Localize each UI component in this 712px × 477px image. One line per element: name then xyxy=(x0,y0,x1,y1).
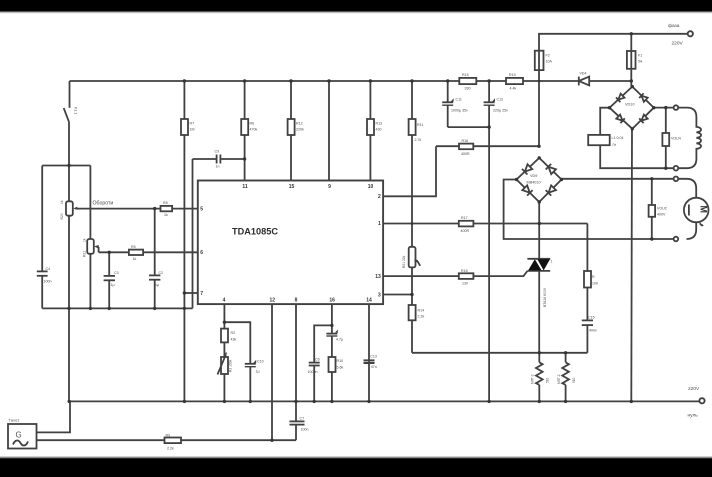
svg-text:R14: R14 xyxy=(418,309,425,313)
potentiometer R21 xyxy=(409,247,421,268)
svg-text:1k: 1k xyxy=(133,257,137,261)
svg-text:C4: C4 xyxy=(46,267,51,271)
wire pin16 column xyxy=(331,304,333,401)
svg-text:43k: 43k xyxy=(231,338,237,342)
svg-text:1µ: 1µ xyxy=(111,283,115,287)
wire R13 column pin10 xyxy=(369,81,371,181)
svg-text:L1 0.04: L1 0.04 xyxy=(612,136,624,140)
svg-text:R7: R7 xyxy=(190,122,195,126)
svg-text:1k: 1k xyxy=(83,238,87,242)
wire pin4 column xyxy=(223,304,225,401)
pin numbers top xyxy=(242,184,373,190)
pin numbers left xyxy=(200,206,203,296)
svg-text:R15: R15 xyxy=(462,73,469,77)
wire L1 to field return xyxy=(600,145,673,168)
svg-text:MB4010: MB4010 xyxy=(527,181,541,185)
wire C12 column xyxy=(488,81,490,401)
svg-text:фаза: фаза xyxy=(668,23,680,29)
wire pin7 stub xyxy=(184,292,197,294)
svg-text:R2: R2 xyxy=(231,331,236,335)
svg-text:BTA16 600V: BTA16 600V xyxy=(543,287,547,307)
capacitor C10 xyxy=(245,360,256,402)
svg-text:Обороти: Обороти xyxy=(93,201,114,207)
svg-text:C12: C12 xyxy=(497,98,504,102)
resistor R7 xyxy=(181,119,188,135)
inductor field winding xyxy=(678,108,701,169)
svg-text:Тахо1: Тахо1 xyxy=(9,418,21,423)
svg-text:R12: R12 xyxy=(296,122,303,126)
svg-text:R6: R6 xyxy=(250,122,255,126)
svg-text:470k: 470k xyxy=(250,128,258,132)
wire pin4 branch to C10 xyxy=(224,322,250,363)
svg-text:МЛТ-2: МЛТ-2 xyxy=(557,374,561,384)
svg-text:M: M xyxy=(699,206,709,214)
node dots VD10 corners xyxy=(631,85,634,88)
svg-text:6: 6 xyxy=(200,250,203,256)
svg-text:2.7k: 2.7k xyxy=(415,138,422,142)
wire VD9 left corner to armature return xyxy=(504,180,674,240)
wire pin9 column xyxy=(328,81,330,181)
wire pin2 row xyxy=(383,146,436,196)
wire R16 row xyxy=(436,145,539,147)
svg-text:нуль: нуль xyxy=(688,414,699,419)
IC U1 TDA1085C body xyxy=(198,181,383,305)
fuse F1 xyxy=(627,51,636,69)
fuse F2 xyxy=(535,51,544,70)
svg-text:C3: C3 xyxy=(114,271,119,275)
wire VD9 right corner armature row xyxy=(562,178,674,180)
terminal field bottom xyxy=(674,166,679,171)
svg-text:R13: R13 xyxy=(376,122,383,126)
svg-text:220V: 220V xyxy=(672,41,684,47)
terminal phase 220V xyxy=(688,31,693,36)
node dots shunt row xyxy=(538,351,541,354)
svg-text:10A: 10A xyxy=(546,60,553,64)
svg-text:430: 430 xyxy=(376,128,382,132)
svg-text:C13: C13 xyxy=(370,355,377,359)
svg-text:C6: C6 xyxy=(315,358,320,362)
resistor R11 xyxy=(409,119,416,135)
capacitor C15 xyxy=(582,320,593,325)
svg-text:100: 100 xyxy=(592,282,598,286)
wire fuse F1 branch xyxy=(630,34,632,87)
svg-text:47n: 47n xyxy=(371,365,377,369)
svg-text:R10: R10 xyxy=(337,359,344,363)
svg-text:400R: 400R xyxy=(461,152,470,156)
svg-text:1: 1 xyxy=(551,260,553,264)
wire switch column to ground xyxy=(68,121,70,401)
wire phase top lead xyxy=(539,34,688,146)
node dot phase F1 xyxy=(630,32,633,35)
wire triac anode column xyxy=(538,271,540,353)
capacitor C7 xyxy=(290,421,305,424)
svg-text:VOU2: VOU2 xyxy=(657,207,667,211)
svg-text:VD9: VD9 xyxy=(530,174,537,178)
capacitor C5 4u7 xyxy=(326,330,337,337)
svg-text:15: 15 xyxy=(289,184,295,190)
svg-text:R11: R11 xyxy=(417,123,423,127)
svg-text:12: 12 xyxy=(270,298,276,304)
resistor R17 xyxy=(459,221,474,227)
terminal armature minus xyxy=(674,237,679,242)
wire R12 column pin15 xyxy=(290,81,292,181)
svg-text:C15: C15 xyxy=(588,316,595,320)
wire C4 column xyxy=(41,166,43,271)
svg-text:1µ: 1µ xyxy=(155,283,159,287)
resistor bleeder 2 xyxy=(562,353,569,402)
wire snubber column xyxy=(586,224,588,321)
svg-text:1k: 1k xyxy=(60,200,64,204)
wire pin1 row xyxy=(383,223,587,225)
svg-text:4.4k: 4.4k xyxy=(510,87,517,91)
svg-text:13: 13 xyxy=(375,274,381,280)
pin numbers bottom xyxy=(223,298,372,304)
svg-text:K1.1: K1.1 xyxy=(74,107,78,114)
wire VD10 left to relay L1 xyxy=(600,108,609,135)
potentiometer R1 speed xyxy=(66,201,78,215)
resistor R13 xyxy=(367,119,374,135)
resistor R5 xyxy=(129,250,143,255)
wire VD9 bottom to triac xyxy=(538,202,540,259)
wire VD10 bottom to neutral xyxy=(630,129,633,402)
capacitor C11 xyxy=(442,98,453,105)
svg-text:2: 2 xyxy=(378,194,381,200)
svg-text:2.2k: 2.2k xyxy=(418,315,425,319)
resistor R16 xyxy=(459,144,473,150)
svg-text:C9: C9 xyxy=(215,150,220,154)
generator G1 tacho box xyxy=(8,424,37,449)
svg-text:G: G xyxy=(16,431,22,440)
svg-text:R3 100k: R3 100k xyxy=(229,359,233,372)
triac T1 xyxy=(527,259,550,271)
switch K1.1 xyxy=(64,81,70,121)
wire C11 column xyxy=(447,81,449,127)
wire pin3 row xyxy=(383,294,412,296)
svg-text:1000µ 35v: 1000µ 35v xyxy=(451,109,468,113)
svg-text:8: 8 xyxy=(295,298,298,304)
svg-text:220V: 220V xyxy=(688,386,700,392)
svg-text:R5: R5 xyxy=(131,245,136,249)
svg-text:1k: 1k xyxy=(164,213,168,217)
node dots varistor xyxy=(650,177,653,180)
svg-text:400R: 400R xyxy=(461,229,470,233)
svg-text:400V: 400V xyxy=(657,213,666,217)
wire pin16 branch to C6 xyxy=(314,325,332,401)
wire VD10 right to field top xyxy=(654,107,674,109)
bridge VD10 xyxy=(610,87,654,129)
svg-text:R18: R18 xyxy=(461,269,468,273)
svg-text:220k: 220k xyxy=(296,128,304,132)
svg-text:R19: R19 xyxy=(509,73,516,77)
capacitor C12 xyxy=(484,98,495,105)
svg-text:R21 22k: R21 22k xyxy=(402,255,406,268)
wire pin12 column tacho xyxy=(271,304,273,440)
svg-text:130: 130 xyxy=(462,282,468,286)
wire C2 column xyxy=(154,209,156,309)
svg-text:VD10: VD10 xyxy=(625,103,635,107)
svg-text:1µ: 1µ xyxy=(256,370,260,374)
resistor R9 xyxy=(165,438,182,444)
node dots left block xyxy=(67,164,70,167)
resistor R15 xyxy=(459,78,476,84)
svg-text:220µ 25v: 220µ 25v xyxy=(493,109,508,113)
svg-text:14: 14 xyxy=(366,298,372,304)
wire C3 column xyxy=(108,252,110,308)
svg-text:C11: C11 xyxy=(456,98,462,102)
wire R7 column xyxy=(183,81,185,401)
svg-text:400v: 400v xyxy=(589,329,597,333)
svg-text:1000n: 1000n xyxy=(308,370,318,374)
svg-text:F1: F1 xyxy=(638,54,642,58)
resistor R2 xyxy=(221,329,228,343)
node dots under IC xyxy=(223,321,226,324)
capacitor C3 xyxy=(104,276,115,280)
svg-text:Гн: Гн xyxy=(613,143,617,147)
svg-text:C2: C2 xyxy=(159,271,164,275)
svg-text:1M: 1M xyxy=(190,128,195,132)
node dots analog bus xyxy=(67,307,70,310)
capacitor C13 xyxy=(364,360,375,363)
svg-text:R20: R20 xyxy=(60,213,64,219)
svg-text:5A: 5A xyxy=(638,60,643,64)
wire tacho row R9 xyxy=(37,439,297,441)
svg-text:5: 5 xyxy=(200,206,203,212)
svg-text:R8: R8 xyxy=(163,201,168,205)
wire pin6 row xyxy=(99,251,198,253)
svg-text:510: 510 xyxy=(572,377,576,383)
wire pin5 row Oboroty xyxy=(76,208,198,210)
wire pin14 column xyxy=(368,304,370,401)
capacitor C2 xyxy=(149,275,160,279)
svg-text:330: 330 xyxy=(465,87,471,91)
node dots VD9 corners xyxy=(538,156,541,159)
wire R4 pot column xyxy=(89,166,91,309)
bottom letterbox bar xyxy=(0,459,712,477)
terminal field top xyxy=(674,105,679,110)
capacitor C6 xyxy=(309,363,320,366)
svg-text:100n: 100n xyxy=(301,428,309,432)
inductor relay L1 xyxy=(588,135,610,145)
resistor R6 xyxy=(241,119,248,135)
top letterbox bar xyxy=(0,0,712,11)
wire analog ground bus xyxy=(42,307,192,309)
wire shunt row xyxy=(412,352,587,354)
pin numbers right xyxy=(375,194,381,298)
svg-text:510: 510 xyxy=(546,377,550,383)
resistor R20 snubber xyxy=(584,271,591,288)
svg-text:F2: F2 xyxy=(546,54,550,58)
resistor R18 xyxy=(459,273,474,279)
terminal armature plus xyxy=(674,177,679,182)
resistor VOLN xyxy=(662,108,669,169)
svg-text:C7: C7 xyxy=(300,417,305,421)
node dots right of IC xyxy=(411,222,414,225)
wire tacho upper lead xyxy=(37,401,71,432)
svg-text:VOLN: VOLN xyxy=(671,137,681,141)
terminal neutral 220V xyxy=(699,398,704,403)
svg-text:C10: C10 xyxy=(257,360,264,364)
capacitor C4 xyxy=(37,271,48,275)
node dots top rail xyxy=(183,79,186,82)
svg-text:R16: R16 xyxy=(462,139,469,143)
resistor R14 xyxy=(409,305,416,320)
varistor VOU2 xyxy=(649,179,656,239)
resistor bleeder 1 xyxy=(536,353,543,402)
svg-text:9: 9 xyxy=(328,184,331,190)
svg-text:1n: 1n xyxy=(216,165,220,169)
svg-text:4: 4 xyxy=(223,298,226,304)
wire R6 column pin11 xyxy=(244,81,246,181)
svg-text:5.6k: 5.6k xyxy=(337,366,344,370)
resistor R12 xyxy=(288,119,295,135)
svg-text:R17: R17 xyxy=(461,216,468,220)
resistor R19 xyxy=(506,78,523,84)
wire pin13 row gate xyxy=(383,271,527,276)
wire neutral ground rail xyxy=(69,400,700,402)
svg-text:2.2k: 2.2k xyxy=(167,447,174,451)
svg-text:16: 16 xyxy=(329,298,335,304)
svg-text:МЛТ-2: МЛТ-2 xyxy=(531,374,535,384)
node dot C9 pin11 xyxy=(243,157,246,160)
svg-text:VD4: VD4 xyxy=(580,72,587,76)
potentiometer R4 xyxy=(87,239,99,254)
motor M armature xyxy=(678,179,708,239)
node dots field xyxy=(664,106,667,109)
svg-text:R21: R21 xyxy=(83,251,87,257)
svg-text:4.7µ: 4.7µ xyxy=(336,338,343,342)
resistor R8 xyxy=(161,206,173,211)
svg-text:7: 7 xyxy=(200,291,203,297)
svg-text:1: 1 xyxy=(378,221,381,227)
trimmer R3 xyxy=(218,352,229,375)
svg-text:11: 11 xyxy=(242,184,248,190)
svg-text:10: 10 xyxy=(368,184,374,190)
svg-text:100n: 100n xyxy=(44,280,52,284)
capacitor C9 xyxy=(217,155,221,164)
svg-text:R: R xyxy=(592,275,595,279)
wire C11 C12 link xyxy=(448,126,489,128)
svg-text:R9: R9 xyxy=(166,434,171,438)
wire top supply rail xyxy=(70,80,632,82)
wire R11 column xyxy=(411,81,413,353)
diode VD4 xyxy=(579,77,589,86)
wire left box top xyxy=(42,165,90,167)
bridge VD9 xyxy=(517,158,562,202)
resistor R10 xyxy=(329,357,336,372)
wire C9 row xyxy=(193,158,245,160)
svg-text:TDA1085C: TDA1085C xyxy=(232,227,278,237)
wire pin8 column xyxy=(295,304,297,440)
svg-text:3: 3 xyxy=(378,292,381,298)
node dots ground rail xyxy=(68,400,71,403)
wire C9 column xyxy=(192,159,194,308)
